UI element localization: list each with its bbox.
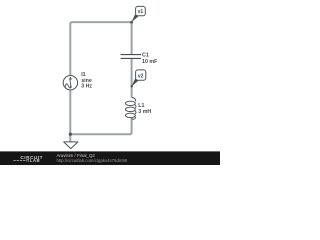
- current source I1: [63, 76, 77, 90]
- net label v2: [131, 70, 146, 88]
- svg-text:v1: v1: [138, 9, 144, 15]
- wire I1 bottom to junction: [69, 90, 71, 134]
- svg-text:LAB: LAB: [30, 158, 40, 163]
- footer bar: [0, 151, 220, 165]
- wire capacitor bottom to inductor top: [131, 59, 133, 98]
- svg-text:http://circuitlab.com/c/gpkx4s: http://circuitlab.com/c/gpkx4s76dm99: [57, 158, 128, 163]
- svg-text:3 Hz: 3 Hz: [81, 84, 92, 90]
- svg-text:L1: L1: [138, 103, 144, 109]
- svg-text:C1: C1: [142, 53, 149, 59]
- label I1 sine 3 Hz: [81, 72, 92, 90]
- wire ground stub: [69, 134, 71, 142]
- node junction dot: [69, 133, 72, 136]
- label L1 3 mH: [138, 103, 151, 115]
- svg-text:3 mH: 3 mH: [138, 109, 151, 115]
- CircuitLab logo: [14, 155, 44, 163]
- svg-text:10 mF: 10 mF: [142, 59, 158, 65]
- svg-text:v2: v2: [138, 73, 144, 79]
- net label v1: [130, 6, 145, 23]
- inductor L1: [125, 97, 136, 119]
- label C1 10 mF: [142, 53, 158, 65]
- wire inductor bottom to bottom rail to junction: [70, 118, 131, 134]
- capacitor C1: [121, 55, 141, 59]
- wire top loop: I1 top to node v1 corner to capacitor top: [70, 22, 131, 75]
- ground: [64, 142, 78, 149]
